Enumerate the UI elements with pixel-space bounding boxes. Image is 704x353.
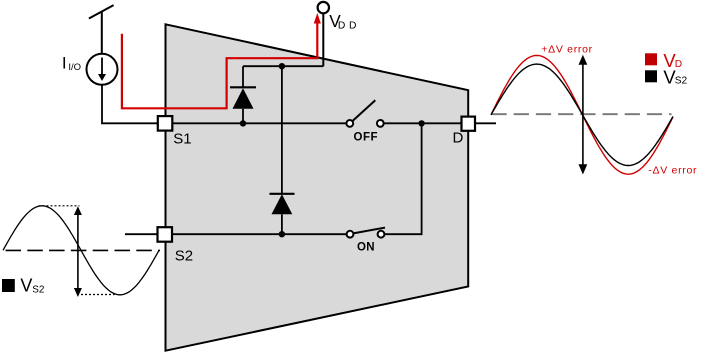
left waveform dashed centerline <box>6 249 161 251</box>
off-page connector (antenna) <box>89 5 114 54</box>
terminal S2 <box>158 227 173 242</box>
right legend black square VS2 <box>645 70 657 82</box>
wire S2 to ON switch <box>173 233 347 235</box>
wire current source to S1 <box>102 85 158 124</box>
current source IIO <box>87 54 118 85</box>
wire S2 stub <box>125 233 158 235</box>
left dotted trough line <box>77 294 115 296</box>
svg-text:OFF: OFF <box>354 131 379 143</box>
wire diode node to VDD line <box>243 65 323 67</box>
node: junction dot diode D1 anode <box>240 120 246 126</box>
right sine VD red <box>491 55 673 174</box>
svg-text:VS2: VS2 <box>663 66 687 87</box>
svg-text:-ΔV error: -ΔV error <box>648 164 697 176</box>
left amplitude double arrow <box>74 206 82 297</box>
svg-text:D: D <box>453 129 464 146</box>
red arrowhead to VDD <box>314 13 321 24</box>
left legend square VS2 <box>2 279 15 292</box>
svg-text:+ΔV error: +ΔV error <box>541 44 593 56</box>
node: junction dot at diode bus <box>279 63 285 69</box>
svg-text:S1: S1 <box>173 130 191 147</box>
node: junction dot on D line <box>418 120 424 126</box>
svg-text:S2: S2 <box>175 247 193 264</box>
right legend red square VD <box>645 53 657 65</box>
terminal S1 <box>158 116 173 131</box>
node: junction dot diode D2 anode <box>279 231 285 237</box>
right dashed centerline <box>492 113 672 115</box>
wire S1 to OFF switch <box>172 122 346 124</box>
svg-text:VS2: VS2 <box>20 275 44 295</box>
mux body trapezoid <box>166 24 469 350</box>
left dotted peak line <box>39 205 80 207</box>
diode D2 <box>270 194 295 234</box>
terminal D <box>462 117 476 131</box>
switch OFF <box>346 100 383 127</box>
diode D1 <box>230 66 256 123</box>
right sine VS2 black <box>491 64 673 165</box>
wire OFF switch to D <box>384 122 462 124</box>
wire diode bus down to D2 <box>281 66 283 194</box>
left sine VS2 <box>3 206 159 295</box>
wire ON switch to D branch <box>385 123 422 234</box>
right amplitude double arrow <box>579 55 588 175</box>
switch ON <box>347 228 385 238</box>
svg-text:VDD: VDD <box>329 11 356 32</box>
VDD terminal <box>318 2 329 66</box>
svg-text:II/O: II/O <box>62 54 81 74</box>
wire D to right <box>475 122 496 124</box>
red injected current path <box>122 23 317 109</box>
svg-text:ON: ON <box>357 242 375 254</box>
